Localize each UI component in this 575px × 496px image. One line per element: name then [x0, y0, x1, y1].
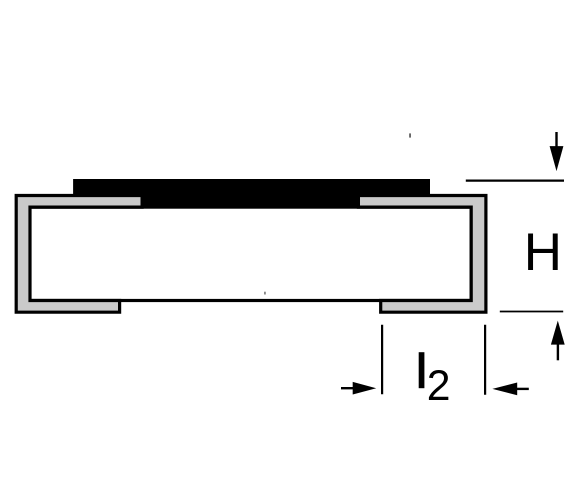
svg-text:H: H: [524, 223, 562, 282]
speck artifact upper middle: [409, 133, 411, 137]
H dimension bottom reference line: [500, 311, 563, 313]
H dimension top reference line: [466, 180, 564, 182]
l2 left extension line: [381, 325, 383, 395]
l2 left arrow (pointing right): [341, 382, 376, 395]
label l2 (termination length dimension): [419, 352, 425, 388]
right termination (wrap-around end cap): [358, 196, 486, 313]
left termination (wrap-around end cap): [16, 196, 142, 313]
body (ceramic substrate): [30, 207, 471, 300]
l2 right extension line: [484, 325, 486, 395]
H dimension down arrow: [550, 132, 564, 171]
l2 right arrow (pointing left): [492, 383, 528, 396]
speck artifact near body bottom: [264, 292, 265, 295]
svg-text:2: 2: [427, 362, 451, 410]
resistive layer (black top film): [73, 179, 430, 209]
H dimension up arrow: [551, 321, 565, 361]
